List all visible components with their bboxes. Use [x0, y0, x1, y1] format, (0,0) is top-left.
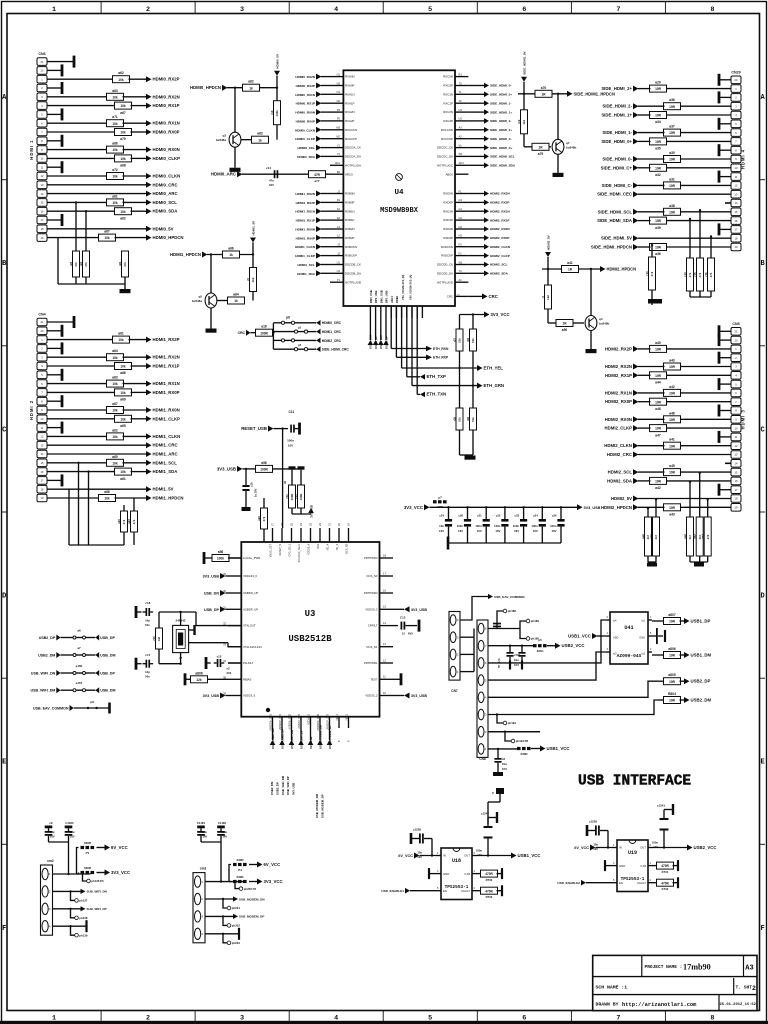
svg-text:3V3_USB: 3V3_USB [584, 506, 601, 510]
svg-text:HDMI1_RX1P: HDMI1_RX1P [296, 219, 315, 223]
svg-text:10k: 10k [120, 470, 126, 474]
svg-text:10V: 10V [477, 853, 482, 857]
svg-text:c20: c20 [458, 514, 463, 518]
resistor a62 [107, 433, 124, 440]
svg-text:bc848a: bc848a [192, 299, 203, 303]
svg-text:SIDE_HDMI_C-: SIDE_HDMI_C- [602, 183, 633, 188]
svg-text:CN7: CN7 [451, 689, 458, 693]
svg-text:6V_VCC: 6V_VCC [574, 846, 589, 850]
signal HDMI1_RX0N to U4 [316, 226, 322, 232]
resistor a44 [650, 372, 667, 379]
svg-text:c6: c6 [502, 757, 506, 761]
signal SIDE_HDMI_2+ [633, 86, 639, 92]
svg-text:HDMI2_RX1P: HDMI2_RX1P [605, 373, 632, 378]
svg-text:USB_WIFI_DM: USB_WIFI_DM [281, 775, 285, 795]
svg-text:r27: r27 [452, 337, 456, 342]
CN7 wires [460, 636, 474, 638]
signal HDMI0_CLKN to U4 [316, 127, 322, 133]
svg-text:USB1_DM: USB1_DM [691, 653, 712, 658]
svg-text:HDMI0_HPDCN: HDMI0_HPDCN [153, 235, 184, 240]
svg-text:RXC2P: RXC2P [443, 119, 453, 123]
wire SIDE_HDMI_CEC [638, 193, 731, 195]
power 3V3_USB [577, 504, 583, 510]
ic U3 USB2512B [241, 542, 379, 717]
svg-text:7: 7 [616, 6, 620, 14]
svg-text:OCS_N2: OCS_N2 [346, 543, 349, 554]
resistor a66 [115, 363, 132, 370]
svg-text:aa3: aa3 [693, 534, 697, 539]
svg-text:a41: a41 [567, 261, 573, 265]
svg-text:470: 470 [706, 534, 710, 539]
resistor a67 [99, 234, 116, 241]
svg-text:10k: 10k [112, 382, 118, 386]
svg-text:a32: a32 [655, 173, 661, 177]
svg-text:U18: U18 [452, 858, 461, 864]
signal HDMI1_RX1N [146, 381, 152, 387]
svg-text:ADJ1: ADJ1 [390, 296, 394, 303]
svg-text:C1181: C1181 [197, 821, 206, 825]
svg-text:ph139: ph139 [79, 933, 88, 937]
resistor a16 100R [256, 329, 273, 336]
svg-text:ETH_RXN: ETH_RXN [433, 347, 449, 351]
resistor a31 [664, 182, 681, 189]
resistor a36 [650, 244, 667, 251]
svg-text:HDMI2_RX1N: HDMI2_RX1N [490, 209, 510, 213]
svg-text:ph202: ph202 [232, 924, 241, 928]
svg-text:1R: 1R [562, 322, 567, 326]
svg-text:USB2_DM: USB2_DM [691, 698, 712, 703]
power USB1_VCC U41 [592, 633, 598, 639]
signal HDMI1_RX0P to U4 [316, 235, 322, 241]
signal HDMI1_HPDCN [202, 252, 208, 258]
svg-text:16V: 16V [477, 529, 482, 533]
resistor a70 [115, 129, 132, 136]
signal SIDE_HDMI_SDA [633, 218, 639, 224]
connector CN7 [449, 612, 460, 681]
svg-text:100n: 100n [457, 524, 464, 528]
svg-text:a39: a39 [655, 226, 661, 230]
resistor a66 [99, 495, 116, 502]
svg-text:a22: a22 [257, 516, 261, 521]
svg-text:RXB0P: RXB0P [345, 201, 355, 205]
svg-text:A2: A2 [459, 135, 463, 139]
svg-text:470: 470 [709, 272, 713, 277]
svg-text:10R: 10R [669, 654, 676, 658]
svg-text:A3: A3 [459, 126, 463, 130]
ground pin 2 CN5 [719, 357, 731, 359]
svg-text:a47: a47 [655, 433, 661, 437]
ground pin 20 CN5 [719, 339, 731, 341]
resistor R804 10R [658, 699, 665, 701]
wire HDMI2_SDA [666, 480, 732, 482]
svg-text:10u: 10u [70, 830, 75, 834]
svg-text:CN4: CN4 [38, 313, 45, 317]
svg-text:GND: GND [619, 864, 625, 868]
svg-text:10u: 10u [50, 830, 55, 834]
svg-text:RXBCKN: RXBCKN [345, 245, 357, 249]
svg-text:r26: r26 [466, 416, 470, 421]
power flag SIDE_HDMI1_5V [521, 77, 527, 82]
wire hpd [207, 254, 253, 256]
svg-text:RXC1P: RXC1P [443, 101, 453, 105]
signal USB_DM [95, 687, 99, 693]
svg-text:HDMI0_RX2N: HDMI0_RX2N [295, 75, 315, 79]
svg-text:PROJECT NAME :: PROJECT NAME : [645, 964, 683, 970]
wire SIDE_HDMI_SCL [680, 211, 732, 213]
svg-text:U1: U1 [337, 260, 341, 264]
wire HDMI0_RX2N [47, 96, 108, 98]
svg-text:XTALIN/CLKIN: XTALIN/CLKIN [243, 645, 262, 649]
wire HDMI1_SDA [47, 471, 116, 473]
svg-text:c24: c24 [533, 514, 538, 518]
svg-text:RXA0N: RXA0N [345, 75, 355, 79]
svg-text:VDD33_2: VDD33_2 [365, 694, 378, 698]
svg-text:HDMI2_CLKN: HDMI2_CLKN [490, 245, 511, 249]
svg-text:r7: r7 [541, 295, 545, 298]
svg-text:a67: a67 [112, 402, 118, 406]
svg-text:USB_ENABLE1: USB_ENABLE1 [381, 889, 404, 893]
svg-text:10k: 10k [104, 497, 110, 501]
ground pin 2 CN29 [719, 96, 731, 98]
svg-text:10R: 10R [669, 365, 676, 369]
signal HDMI0_SDA to U4 [316, 153, 322, 159]
svg-text:6V3: 6V3 [408, 632, 413, 636]
svg-text:bc848b: bc848b [599, 322, 610, 326]
svg-text:RXC0N: RXC0N [443, 75, 453, 79]
ground pin 8 CN29 [719, 149, 731, 151]
signal SIDE_HDMI_C+ [633, 165, 639, 171]
svg-text:HDMI0_SDA: HDMI0_SDA [153, 209, 178, 214]
signal SIDE_HDMI_1- to U4 [484, 100, 489, 106]
testpoint ph136 [83, 874, 87, 881]
svg-text:10V: 10V [502, 767, 507, 771]
svg-text:CN6: CN6 [38, 52, 45, 56]
wire HDMI1_RX1P [47, 365, 116, 367]
svg-text:r15: r15 [693, 272, 697, 277]
ground pin 11 CN6 [47, 166, 62, 168]
pullup bank below CN29 trio [689, 219, 691, 258]
svg-text:a43: a43 [669, 513, 675, 517]
svg-text:470R: 470R [661, 881, 669, 885]
svg-text:47k: 47k [698, 272, 702, 277]
svg-text:ph138: ph138 [79, 916, 88, 920]
ground pin 11 CN29 [719, 176, 731, 178]
svg-text:SIDE_HDMI_0-: SIDE_HDMI_0- [490, 84, 511, 88]
ground [259, 549, 270, 553]
svg-text:N2: N2 [337, 99, 341, 103]
resistor a62 [113, 76, 130, 83]
svg-text:HDMI0_RX1N: HDMI0_RX1N [153, 121, 180, 126]
signal HDMI1_SCL to U4 [316, 262, 322, 268]
svg-text:SIDE_HDMI_2-: SIDE_HDMI_2- [602, 104, 632, 109]
svg-text:10k: 10k [112, 95, 118, 99]
svg-text:SIDE_HDMI_HPDCN: SIDE_HDMI_HPDCN [591, 245, 632, 250]
svg-text:HDMI1_SDA: HDMI1_SDA [153, 469, 178, 474]
wire HDMI0_RX2P [47, 78, 114, 80]
ground [120, 289, 131, 293]
svg-text:3V3_USB: 3V3_USB [411, 694, 427, 698]
svg-text:10R: 10R [655, 246, 662, 250]
resistor a72 [107, 173, 124, 180]
svg-text:HDMI1_RX0N: HDMI1_RX0N [295, 228, 315, 232]
capacitor c22 [504, 506, 506, 508]
wire HDMI0_CLKP [47, 157, 116, 159]
signal HDMI1_RX0P [146, 389, 152, 395]
signal SIDE_HDMI_CRC [316, 346, 320, 352]
svg-text:HDMI0_RX0N: HDMI0_RX0N [153, 147, 180, 152]
signal HDMI0_RX0N to U4 [316, 109, 322, 115]
svg-text:90R: 90R [437, 505, 443, 509]
svg-text:a24: a24 [127, 519, 131, 524]
signal HDMI0_RX0N [146, 147, 152, 153]
wire ETH_YEL [401, 306, 403, 368]
signal HDMI1_SDA [146, 469, 152, 475]
svg-text:VBUS_DET: VBUS_DET [270, 544, 273, 558]
svg-text:2: 2 [146, 6, 150, 14]
svg-text:USB_MODEM_DP: USB_MODEM_DP [328, 725, 332, 749]
cap bank 3V3_VCC to 3V3_USB [424, 504, 430, 510]
svg-text:K2: K2 [337, 216, 341, 220]
signal HDMI2_RX0P to U4 [484, 235, 489, 241]
svg-text:USB1_VCC: USB1_VCC [547, 746, 570, 751]
svg-text:a90: a90 [562, 328, 568, 332]
svg-text:USB1_VCC: USB1_VCC [568, 634, 591, 639]
svg-text:51k: 51k [458, 338, 462, 343]
ground pin 21 CN5 [719, 330, 731, 332]
wire HDMI2_CRC [638, 454, 731, 456]
capacitor U41 gnd [652, 635, 657, 637]
signal HDMI0_RX2P [146, 76, 152, 82]
svg-text:10k: 10k [112, 201, 118, 205]
svg-text:10V: 10V [514, 663, 519, 667]
svg-text:GND: GND [443, 872, 449, 876]
svg-text:HDMI1_RX0P: HDMI1_RX0P [296, 236, 315, 240]
resistor a806 10R [652, 654, 665, 656]
svg-text:RXD2P: RXD2P [443, 236, 453, 240]
svg-text:100R: 100R [299, 494, 303, 501]
jumper row SIDE_HDMI_CRC [273, 348, 294, 350]
svg-text:XTALOUT: XTALOUT [243, 624, 256, 628]
signal HDMI2_RX2P [633, 346, 639, 352]
title block [593, 955, 757, 1010]
resistor r95 100R [298, 466, 305, 469]
ic U41 AZ099-04S [610, 612, 648, 664]
wire SIDE_HDMI_C- [680, 184, 732, 186]
svg-text:USB_WIFI_DM: USB_WIFI_DM [31, 689, 56, 693]
svg-text:q4: q4 [599, 317, 603, 321]
svg-text:DDCDD_DA: DDCDD_DA [437, 271, 453, 275]
svg-text:24MHZ: 24MHZ [176, 619, 186, 623]
svg-text:IN: IN [619, 846, 622, 850]
svg-text:ETH_GRN: ETH_GRN [484, 383, 505, 388]
svg-text:CRFILT: CRFILT [368, 624, 378, 628]
svg-text:OUT: OUT [640, 846, 646, 850]
svg-text:RESET_USB: RESET_USB [241, 426, 267, 431]
resistor a62 1k [243, 84, 260, 91]
power 3V3_VCC [105, 870, 111, 876]
signal USB_DP [95, 670, 99, 676]
svg-text:r25: r25 [452, 416, 456, 421]
resistor a39 [650, 217, 667, 224]
svg-text:USB_WIFI_DM: USB_WIFI_DM [290, 729, 294, 749]
svg-text:14p: 14p [145, 619, 150, 623]
signal SIDE_HDMI_1- [633, 130, 639, 136]
power USB1_VCC [540, 746, 546, 752]
signal HDMI0_SCL to U4 [316, 145, 322, 151]
signal HDMI2_CRC [633, 452, 639, 458]
svg-text:100n: 100n [550, 524, 557, 528]
ground pin 21 CN4 [47, 321, 74, 323]
svg-text:T. SHT: T. SHT [736, 985, 753, 991]
svg-text:p8: p8 [90, 700, 94, 704]
signal SIDE_HDMI_SCL [633, 209, 639, 215]
svg-text:SIDE_HDMI_SDA: SIDE_HDMI_SDA [490, 164, 516, 168]
svg-text:a31: a31 [669, 177, 675, 181]
wire HDMI1_CLKP [47, 418, 116, 420]
wire ETH_RXP [395, 306, 397, 357]
testpoint ph203 [223, 934, 227, 943]
svg-text:aa2: aa2 [683, 534, 687, 539]
svg-text:6V3: 6V3 [227, 671, 232, 675]
svg-text:100n: 100n [475, 524, 482, 528]
ferrite p5 [533, 644, 537, 647]
svg-text:aa4: aa4 [701, 534, 705, 539]
svg-text:a69: a69 [120, 398, 126, 402]
resistor a56 100k [204, 557, 213, 559]
wire HDMI0_RX0N [47, 149, 108, 151]
signal USB_DP [220, 606, 226, 612]
signal HDMI0_5V [146, 226, 152, 232]
svg-text:1k2: 1k2 [546, 295, 550, 300]
svg-text:HDMI1_CRC: HDMI1_CRC [322, 330, 342, 334]
svg-text:3V3_VCC: 3V3_VCC [111, 870, 130, 875]
testpoint ph194 [504, 731, 506, 733]
svg-text:CFG_SEL1: CFG_SEL1 [289, 543, 292, 556]
svg-text:c9: c9 [49, 821, 53, 825]
capacitor c21 [485, 506, 487, 508]
svg-text:aa1: aa1 [649, 534, 653, 539]
svg-text:RXD0P: RXD0P [443, 201, 453, 205]
svg-text:1R: 1R [568, 268, 573, 272]
svg-text:AD4: AD4 [459, 161, 465, 165]
svg-text:a62: a62 [112, 428, 118, 432]
svg-text:a7: a7 [77, 646, 81, 650]
wire HDMI2_RX0P [666, 401, 732, 403]
svg-text:HDMI0_RX2P: HDMI0_RX2P [296, 84, 315, 88]
capacitor c24 [541, 506, 543, 508]
wire cm3 pin1 [205, 881, 243, 883]
signal SIDE_HDMI_2- [633, 103, 639, 109]
svg-text:100R: 100R [260, 331, 268, 335]
svg-text:4: 4 [334, 6, 338, 14]
wire xtal bottom [180, 653, 182, 664]
svg-text:HDMI2_RX2P: HDMI2_RX2P [605, 346, 632, 351]
svg-text:HDMI1_CLKP: HDMI1_CLKP [295, 254, 315, 258]
svg-text:HDMI1_RX1N: HDMI1_RX1N [295, 210, 315, 214]
svg-text:a67: a67 [104, 230, 110, 234]
svg-text:a34: a34 [655, 120, 661, 124]
svg-text:U3: U3 [337, 269, 341, 273]
svg-text:HDMI0_ARC: HDMI0_ARC [211, 172, 236, 177]
svg-text:a60: a60 [112, 455, 118, 459]
wire SIDE_HDMI_1- [680, 132, 732, 134]
wire HDMI2_CLKN [680, 445, 732, 447]
wire hpd [227, 87, 277, 89]
svg-text:R804: R804 [668, 692, 676, 696]
svg-text:HOTPLUGC: HOTPLUGC [437, 163, 453, 167]
wire HDMI1_RX2N [47, 356, 108, 358]
signal HDMI1_RX0N [146, 407, 152, 413]
svg-text:USB INTERFACE: USB INTERFACE [578, 774, 691, 790]
signal HDMI1_RX2N [146, 354, 152, 360]
svg-text:E: E [760, 759, 764, 767]
svg-text:HDMI1_HPDCN: HDMI1_HPDCN [153, 496, 184, 501]
svg-text:470R: 470R [485, 889, 493, 893]
svg-text:RXC0P: RXC0P [443, 84, 453, 88]
wire HDMI0_RX0P [47, 131, 116, 133]
signal USB_EAV_COMMON top [460, 597, 488, 621]
svg-text:HDMI0_HPDCN: HDMI0_HPDCN [190, 85, 221, 90]
resistor a45 [664, 469, 681, 476]
svg-text:10R: 10R [655, 348, 662, 352]
black jumper above U20 [496, 788, 504, 794]
svg-text:RXB2P: RXB2P [345, 236, 355, 240]
svg-text:RXB1P: RXB1P [345, 218, 355, 222]
svg-text:7: 7 [616, 1014, 620, 1022]
svg-text:a160: a160 [76, 664, 83, 668]
signal ETH_TXN [420, 392, 425, 398]
transistor q5 bc848a [205, 293, 217, 308]
capacitor c16 [447, 506, 449, 508]
wire HDMI1_5V [47, 488, 146, 490]
svg-text:ABC0: ABC0 [445, 172, 453, 176]
svg-text:G2: G2 [459, 216, 463, 220]
svg-text:47k: 47k [650, 271, 654, 276]
svg-text:6: 6 [522, 1014, 526, 1022]
svg-text:3V3_USB: 3V3_USB [203, 575, 220, 579]
signal HDMI2_HPDCN [633, 504, 639, 510]
svg-text:HDMI1_RX2N: HDMI1_RX2N [295, 192, 315, 196]
wire SIDE_HDMI_1+ [666, 114, 732, 116]
svg-text:10u: 10u [502, 762, 507, 766]
svg-text:RXA2N: RXA2N [345, 110, 355, 114]
svg-text:10R: 10R [655, 400, 662, 404]
capacitor c17 14p [146, 660, 148, 668]
pullup bank 4k7 trio [689, 482, 691, 517]
svg-text:HDMI0_CRC: HDMI0_CRC [322, 321, 342, 325]
svg-text:1: 1 [52, 6, 56, 14]
svg-text:10R: 10R [655, 87, 662, 91]
svg-text:a46: a46 [669, 411, 675, 415]
svg-text:a71: a71 [112, 115, 118, 119]
svg-text:EN: EN [619, 881, 623, 885]
svg-text:100n: 100n [287, 439, 294, 443]
svg-text:100n: 100n [531, 524, 538, 528]
svg-text:a6: a6 [77, 628, 81, 632]
wire SIDE_HDMI_2+ [666, 88, 732, 90]
svg-text:a68: a68 [120, 164, 126, 168]
svg-text:3V3_USB: 3V3_USB [203, 694, 220, 698]
svg-text:CRC: CRC [238, 331, 246, 335]
U4 pin CRC [455, 295, 468, 297]
svg-text:P2: P2 [337, 117, 341, 121]
thermal pad symbol [396, 174, 403, 181]
signal SIDE_HDMI_1+ to U4 [484, 109, 489, 115]
svg-text:AZ099-04S: AZ099-04S [617, 653, 642, 659]
signal SUB_WIFI_DN [53, 890, 81, 892]
resistor r27 51k [456, 329, 463, 351]
svg-text:a806: a806 [668, 647, 676, 651]
